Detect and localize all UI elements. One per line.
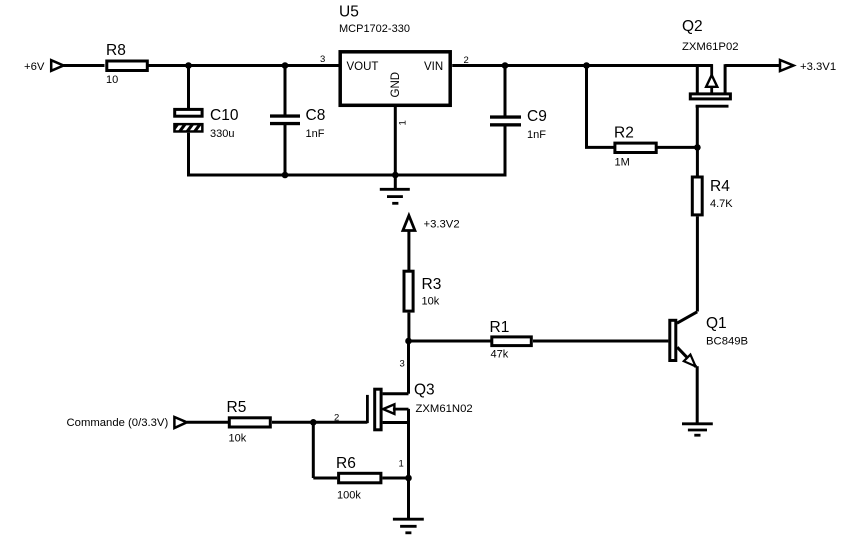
svg-text:ZXM61N02: ZXM61N02: [416, 403, 473, 415]
svg-text:100k: 100k: [337, 490, 361, 502]
wire vertical to R2: [585, 146, 614, 149]
svg-text:1: 1: [399, 459, 404, 470]
capacitor C10: [173, 107, 239, 134]
wire C8 top stub: [284, 66, 287, 115]
wire R8 to U5 VOUT: [149, 64, 339, 67]
junction R2 branch: [583, 62, 590, 69]
transistor Q1: [670, 312, 748, 367]
svg-text:Q3: Q3: [414, 382, 435, 399]
capacitor C8: [270, 107, 325, 125]
svg-text:1nF: 1nF: [527, 129, 546, 141]
junction R5/R6 node: [310, 419, 317, 426]
ground symbol GND1: [380, 175, 410, 203]
port +3.3V1: [780, 60, 794, 71]
wire C9 top stub: [504, 66, 507, 116]
junction GND pin to rail: [392, 172, 399, 179]
svg-text:330u: 330u: [210, 128, 234, 140]
wire Q3 source down: [407, 409, 410, 519]
svg-text:1nF: 1nF: [306, 128, 325, 140]
wire C9 bottom stub: [504, 126, 507, 176]
wire C8 bottom stub: [284, 125, 287, 175]
wire node to R1: [409, 340, 491, 343]
svg-text:R2: R2: [614, 125, 634, 142]
wire node down to R6: [312, 422, 315, 478]
resistor R1: [490, 319, 532, 346]
svg-text:+6V: +6V: [24, 61, 45, 73]
svg-text:Q2: Q2: [682, 18, 703, 35]
wire C10 top stub: [187, 66, 190, 110]
junction gate node: [694, 144, 701, 151]
resistor R4: [692, 177, 730, 215]
IC U5: [339, 4, 450, 106]
svg-text:C8: C8: [306, 107, 326, 124]
svg-text:3: 3: [320, 54, 325, 65]
svg-text:GND: GND: [390, 72, 402, 98]
svg-text:MCP1702-330: MCP1702-330: [339, 23, 410, 35]
svg-text:R3: R3: [422, 276, 442, 293]
resistor R2: [614, 125, 656, 153]
transistor Q3: [367, 382, 472, 430]
svg-text:1: 1: [398, 120, 409, 125]
svg-text:10: 10: [106, 74, 118, 86]
svg-text:1M: 1M: [615, 157, 630, 169]
svg-text:R6: R6: [336, 455, 356, 472]
svg-text:10k: 10k: [422, 296, 440, 308]
svg-text:+3.3V1: +3.3V1: [800, 61, 836, 73]
svg-text:3: 3: [400, 359, 405, 370]
wire R1 to Q1 base: [533, 340, 668, 343]
svg-text:47k: 47k: [491, 349, 509, 361]
svg-text:BC849B: BC849B: [706, 336, 748, 348]
wire R3 to node 3: [407, 313, 410, 341]
ground symbol GND3: [393, 519, 424, 533]
svg-text:R8: R8: [106, 42, 126, 59]
wire R6 to source node: [382, 477, 408, 480]
svg-text:VOUT: VOUT: [347, 61, 379, 73]
svg-text:C10: C10: [210, 107, 239, 124]
wire C10 bottom stub: [187, 133, 190, 177]
junction source node: [405, 475, 412, 482]
wire port to R5: [187, 421, 228, 424]
svg-text:Q1: Q1: [706, 315, 727, 332]
svg-text:4.7K: 4.7K: [710, 198, 733, 210]
wire ground rail: [187, 174, 505, 177]
svg-text:U5: U5: [339, 4, 359, 21]
junction C9 branch: [502, 62, 509, 69]
svg-text:+3.3V2: +3.3V2: [424, 219, 460, 231]
svg-text:10k: 10k: [229, 433, 247, 445]
wire gate node to R4: [696, 147, 699, 175]
capacitor C9: [490, 108, 547, 127]
wire R2 to gate node: [658, 146, 698, 149]
svg-text:R5: R5: [227, 399, 247, 416]
wire R2 left vertical: [585, 66, 588, 148]
svg-text:R4: R4: [710, 178, 730, 195]
transistor Q2: [682, 18, 739, 106]
wire node 3 to Q3 drain: [407, 341, 410, 394]
port Commande: [174, 417, 187, 428]
wire U5 VIN to Q2 drain: [452, 64, 713, 67]
svg-text:ZXM61P02: ZXM61P02: [682, 41, 739, 53]
power symbol +3.3V2: [403, 216, 415, 271]
wire Q2 gate down to node: [696, 106, 699, 147]
wire R5 to Q3 gate: [272, 421, 367, 424]
port +6V: [51, 60, 63, 71]
resistor R6: [336, 455, 381, 483]
wire U5 GND stub: [394, 105, 397, 176]
wire down to R6 left: [313, 477, 337, 480]
junction C8 branch: [282, 62, 289, 69]
wire Q1 emitter down: [696, 366, 699, 424]
resistor R5: [227, 399, 271, 427]
wire R4 to Q1 collector: [696, 217, 699, 312]
svg-text:2: 2: [334, 413, 339, 424]
junction C10 branch: [185, 62, 192, 69]
resistor R3: [404, 271, 441, 311]
resistor R8: [106, 42, 147, 71]
svg-text:Commande (0/3.3V): Commande (0/3.3V): [67, 417, 169, 429]
wire +6V port to R8: [64, 64, 105, 67]
svg-text:C9: C9: [527, 108, 547, 125]
junction node 3: [405, 338, 412, 345]
svg-text:VIN: VIN: [424, 61, 443, 73]
wire Q2 source to +3.3V1 port: [725, 64, 780, 67]
junction C8 to rail: [282, 172, 289, 179]
svg-text:R1: R1: [490, 319, 510, 336]
ground symbol GND2: [682, 424, 713, 435]
